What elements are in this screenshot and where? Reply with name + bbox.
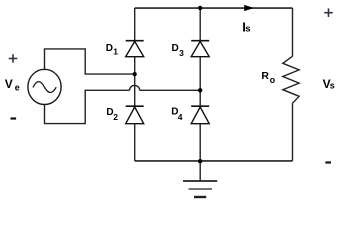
svg-text:3: 3: [179, 48, 184, 58]
wire: Ve negative lead after hop to node B: [140, 89, 201, 91]
AC source Ve circle: [28, 69, 61, 104]
wire: bottom rail: [135, 160, 293, 162]
diode D1: [126, 41, 144, 57]
wire: node A to D2 cathode: [134, 74, 136, 106]
svg-text:D: D: [172, 43, 179, 54]
resistor Ro: [283, 56, 299, 103]
wire: right leg from top rail down to resistor: [292, 8, 294, 56]
svg-text:s: s: [330, 81, 335, 91]
svg-text:s: s: [245, 23, 250, 34]
junction node: top rail / D3: [198, 6, 202, 10]
ground symbol: [183, 181, 217, 197]
svg-text:1: 1: [113, 47, 118, 57]
diode D4: [191, 106, 209, 124]
wire: D1 cathode to top rail: [134, 8, 136, 41]
junction node A: Ve+ / D1-D2 leg: [133, 72, 137, 76]
wire: D4 anode to bottom rail: [199, 124, 201, 161]
AC source sine symbol: [33, 82, 56, 93]
label + (Vs positive): [324, 8, 333, 17]
svg-text:4: 4: [178, 112, 183, 122]
wire: D3 anode to node B: [199, 57, 201, 91]
label + (Ve positive): [9, 54, 18, 63]
wire: ground stub: [199, 161, 201, 181]
wire: D1 anode to node A: [134, 57, 136, 74]
wire: node B to D4 cathode: [199, 90, 201, 106]
svg-text:D: D: [106, 43, 113, 54]
svg-text:e: e: [15, 82, 20, 92]
diode D2: [126, 106, 144, 124]
diode D3: [191, 41, 209, 57]
label - (Vs negative): [325, 161, 331, 163]
label - (Ve negative): [11, 117, 17, 119]
wire: Ve positive lead to node A: [45, 49, 135, 74]
svg-text:V: V: [5, 77, 13, 91]
junction node: bottom rail / ground: [198, 159, 202, 163]
wire: D2 anode to bottom rail: [134, 124, 136, 161]
current arrow Is: [244, 5, 254, 11]
wire hop over D1-D2 leg: [130, 85, 140, 90]
svg-text:2: 2: [113, 112, 118, 122]
wire: top rail from D1 column to load: [135, 7, 293, 9]
wire: D3 cathode to top rail: [199, 8, 201, 41]
wire: right leg from resistor down to bottom rail: [292, 103, 294, 161]
svg-text:R: R: [261, 70, 269, 82]
svg-text:o: o: [270, 75, 276, 85]
wire: Ve negative lead to hop: [45, 90, 130, 123]
junction node B: Ve- / D3-D4 leg: [198, 88, 202, 92]
